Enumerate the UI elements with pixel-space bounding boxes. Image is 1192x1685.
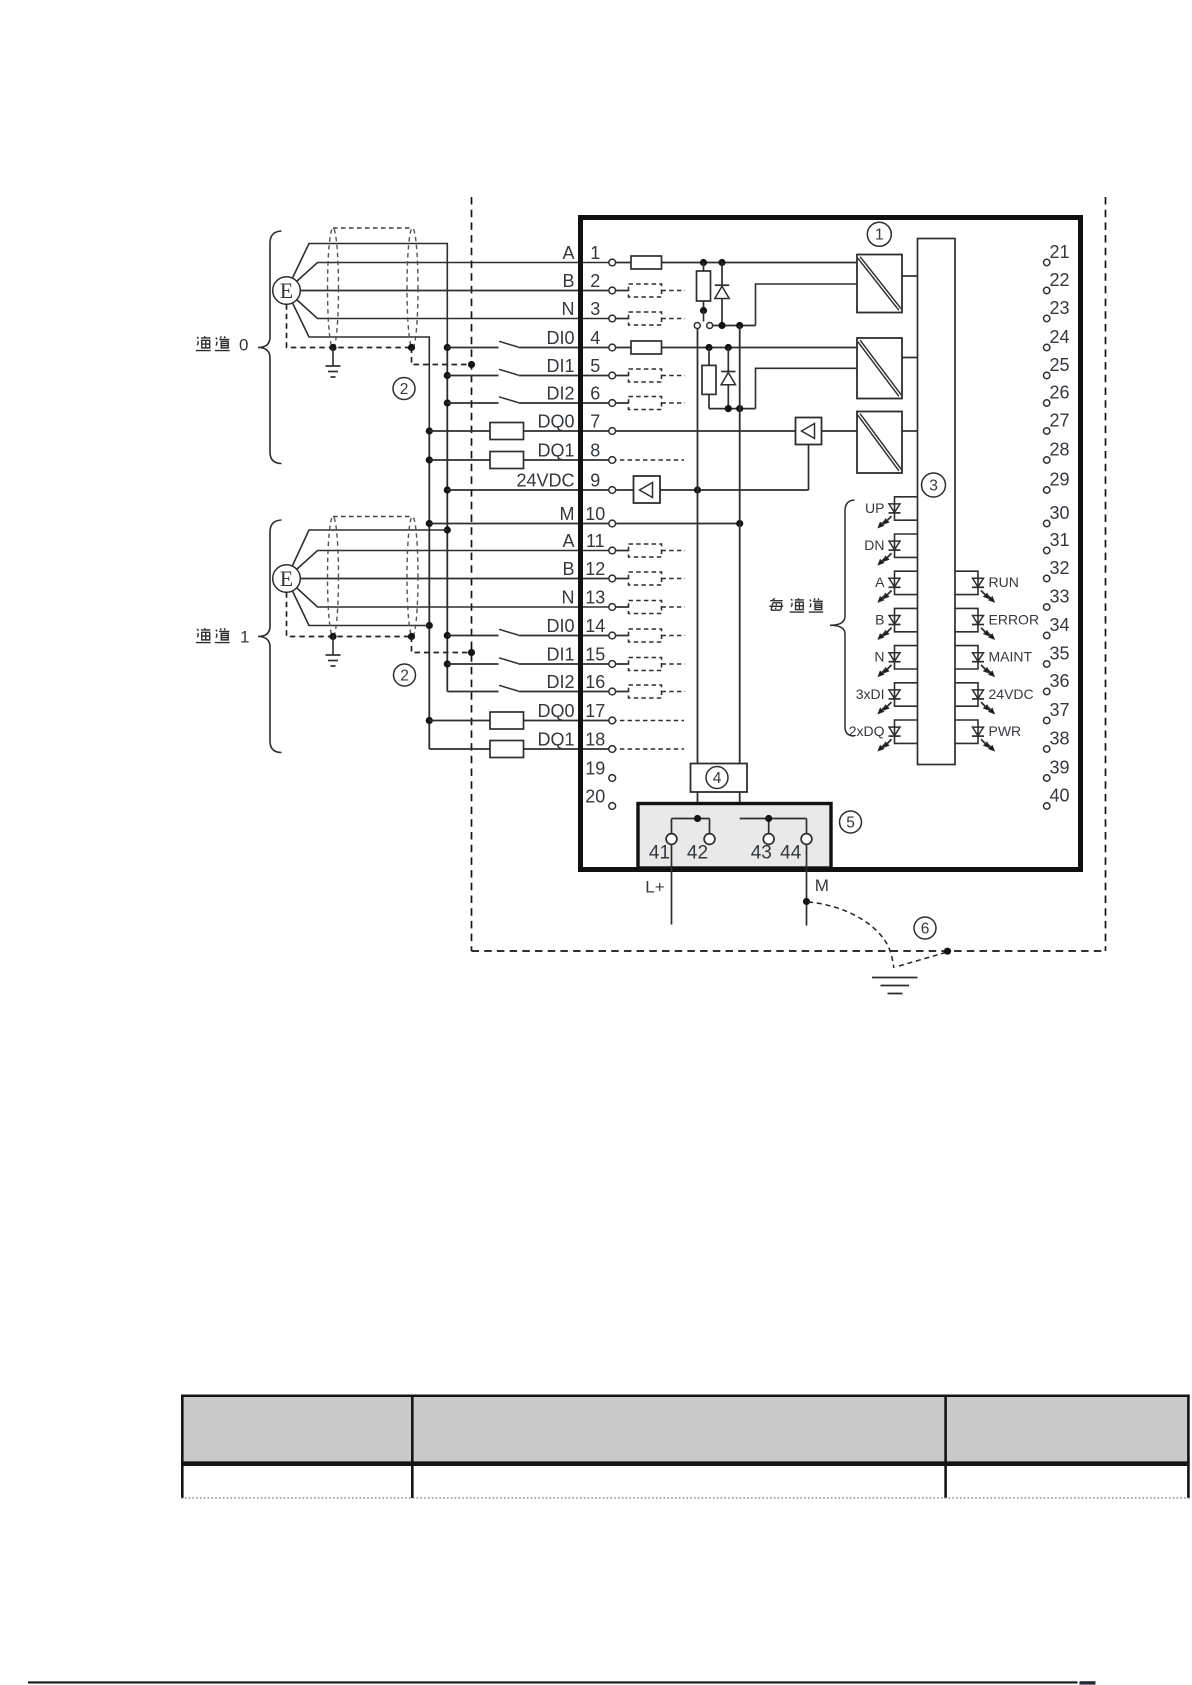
- footer rule: [28, 1681, 1078, 1683]
- table left border: [181, 1395, 184, 1499]
- wire encoder ch0 return (bottom fan) to bus A: [287, 291, 430, 432]
- L+ lead: [671, 844, 673, 924]
- svg-text:0: 0: [239, 336, 248, 355]
- wire DQ0 ch1 pin17: [429, 720, 612, 722]
- DQ0 load box ch0: [490, 423, 524, 440]
- terminal pin 22: [1044, 270, 1070, 294]
- wire encoder ch1 A to pin11: [287, 551, 613, 579]
- ground electrode symbol: [872, 978, 918, 994]
- svg-text:A: A: [562, 243, 574, 263]
- brace per-channel LEDs: [830, 500, 855, 736]
- bus1 vertical internal: [697, 329, 699, 764]
- LED N: [874, 646, 917, 677]
- svg-text:31: 31: [1049, 530, 1069, 550]
- svg-text:29: 29: [1049, 470, 1069, 490]
- dashed wire pin18 internal: [612, 748, 684, 750]
- PE drain dashed curve: [808, 902, 894, 968]
- wire encoder ch0 B to pin2: [287, 290, 613, 292]
- DQ1 load box ch1: [490, 741, 524, 758]
- svg-text:6: 6: [921, 920, 930, 937]
- shield drain ch1 dashed to cabinet wall: [412, 637, 472, 653]
- brace channel 1: [258, 520, 282, 753]
- table column divider 2: [944, 1395, 947, 1499]
- terminal pin 18: [585, 730, 615, 753]
- svg-text:36: 36: [1049, 671, 1069, 691]
- svg-text:44: 44: [780, 843, 802, 864]
- terminal pin 28: [1044, 440, 1070, 464]
- LED DN: [864, 534, 917, 565]
- svg-text:41: 41: [649, 843, 670, 864]
- svg-text:5: 5: [846, 814, 855, 831]
- junction shield drain ch1 / cabinet wall: [468, 649, 475, 656]
- terminal pin 36: [1044, 671, 1070, 695]
- terminal pin 10: [585, 504, 615, 527]
- bus A vertical (DQ/M distribution): [428, 431, 430, 749]
- svg-text:DQ1: DQ1: [537, 441, 574, 461]
- junction bus A / DQ1 ch0: [426, 456, 433, 463]
- terminal pin 3: [590, 299, 615, 322]
- svg-text:8: 8: [590, 441, 600, 461]
- terminal pin 11: [586, 531, 616, 554]
- TVS diode ch0: [715, 263, 729, 326]
- svg-text:2: 2: [400, 667, 409, 684]
- wire encoder ch1 return (bottom fan) to bus A: [287, 579, 430, 626]
- junction 24VDC / bus1: [694, 486, 701, 493]
- terminal 42 circle: [704, 834, 715, 845]
- svg-text:E: E: [280, 278, 293, 303]
- table header fill: [183, 1397, 1188, 1461]
- svg-text:DQ0: DQ0: [537, 412, 574, 432]
- svg-text:M: M: [815, 876, 829, 895]
- svg-text:PWR: PWR: [989, 723, 1022, 739]
- riser 24VDC to amp DQ0: [808, 445, 810, 491]
- junction pin1 / protection resistor ch0: [700, 259, 707, 266]
- note 3 circled (backplane): [922, 473, 946, 497]
- LED 3xDI: [856, 683, 918, 714]
- bus2 vertical internal: [739, 326, 741, 764]
- terminal pin 27: [1044, 411, 1070, 435]
- svg-text:N: N: [874, 649, 884, 665]
- svg-text:38: 38: [1049, 729, 1069, 749]
- input filter dashed box pin3: [612, 312, 685, 325]
- wire encoder ch1 B to pin12: [287, 578, 613, 580]
- cable shield ch1 left ellipse: [328, 517, 339, 637]
- module outline: [581, 218, 1081, 870]
- shield drain ch0 dashed to cabinet wall: [412, 348, 472, 365]
- DQ0 load box ch1: [490, 712, 524, 729]
- terminal pin 6: [590, 384, 615, 407]
- cabinet dashed wall right: [1105, 197, 1107, 951]
- LED 2xDQ: [849, 720, 918, 751]
- DI2 switch ch0: [447, 397, 612, 403]
- LED A: [875, 571, 917, 602]
- terminal 43 circle: [763, 834, 774, 845]
- link blade ch0: [703, 311, 705, 322]
- wire amp DQ0 to transformer T3: [822, 430, 858, 432]
- svg-text:DI1: DI1: [546, 356, 574, 376]
- encoder E ch0 circle: [273, 277, 301, 305]
- svg-text:19: 19: [585, 759, 605, 779]
- svg-text:B: B: [875, 611, 884, 627]
- terminal pin 1: [590, 243, 615, 266]
- wire DQ1 ch1 pin18: [429, 748, 612, 750]
- wire pin10 M internal to bus2: [612, 523, 740, 525]
- svg-text:34: 34: [1049, 615, 1069, 635]
- svg-text:20: 20: [585, 787, 605, 807]
- cable shield ch0 right ellipse: [407, 228, 418, 348]
- svg-text:3xDI: 3xDI: [856, 686, 885, 702]
- table outer top border: [181, 1394, 1190, 1397]
- input filter dashed box pin5: [612, 369, 685, 382]
- shield rail ch1 dashed: [287, 592, 412, 636]
- svg-text:2: 2: [400, 381, 409, 398]
- wire rail ch0 to transformer T1 lower input: [756, 284, 858, 326]
- svg-text:5: 5: [590, 356, 600, 376]
- svg-text:DI2: DI2: [546, 672, 574, 692]
- terminal pin 16: [585, 672, 615, 695]
- junction bus B / DI0 ch1: [444, 632, 451, 639]
- input filter dashed box pin12: [612, 572, 685, 585]
- LED MAINT: [955, 646, 1033, 677]
- shield rail ch1 drain junction: [408, 633, 415, 640]
- wire block4 to terminals 41/42: [672, 819, 710, 835]
- svg-text:33: 33: [1049, 587, 1069, 607]
- junction bus B / DI1 ch0: [444, 372, 451, 379]
- terminal pin 9: [590, 471, 615, 494]
- footer page number: [1080, 1681, 1096, 1684]
- M lead: [806, 844, 808, 925]
- terminal pin 12: [585, 559, 615, 582]
- TVS diode DI group: [721, 348, 735, 409]
- brace channel 0: [258, 231, 282, 464]
- terminal pin 2: [590, 271, 615, 294]
- svg-text:6: 6: [590, 384, 600, 404]
- terminal pin 15: [585, 645, 615, 668]
- svg-text:N: N: [562, 299, 575, 319]
- svg-text:N: N: [562, 588, 575, 608]
- terminal pin 13: [585, 588, 615, 611]
- terminal pin 20: [585, 787, 615, 810]
- junction pin4 / TVS diode DI: [725, 344, 732, 351]
- wire rail DI to transformer T2 lower input: [756, 368, 858, 408]
- svg-text:11: 11: [586, 531, 605, 551]
- svg-text:DN: DN: [864, 537, 884, 553]
- terminal pin 5: [590, 356, 615, 379]
- svg-text:ERROR: ERROR: [989, 611, 1040, 627]
- svg-text:24: 24: [1049, 327, 1069, 347]
- terminal pin 38: [1044, 729, 1070, 753]
- link circle ch0 right: [707, 323, 713, 329]
- svg-text:32: 32: [1049, 558, 1069, 578]
- svg-text:42: 42: [687, 843, 708, 864]
- LED UP: [865, 497, 917, 528]
- input filter dashed box pin16: [612, 685, 685, 698]
- wire M pin10 from bus A: [429, 523, 612, 525]
- terminal pin 19: [585, 759, 615, 782]
- DI0 switch ch0: [447, 341, 612, 347]
- cable shield ch1 right ellipse: [407, 517, 418, 637]
- backplane interface block: [918, 239, 956, 765]
- junction bus A / encoder ch1 return: [426, 622, 433, 629]
- rail DI group ch0: [709, 408, 756, 410]
- label per-channel (meitongdao): [769, 598, 823, 612]
- terminal pin 14: [585, 616, 615, 639]
- svg-text:DI0: DI0: [546, 328, 574, 348]
- junction shield drain ch0 / cabinet wall: [468, 361, 475, 368]
- svg-text:DQ0: DQ0: [537, 701, 574, 721]
- link circle ch0 left: [694, 323, 700, 329]
- svg-text:39: 39: [1049, 758, 1069, 778]
- labels 41 42 43 44: [649, 843, 802, 864]
- LED B: [875, 608, 917, 639]
- svg-text:7: 7: [590, 412, 600, 432]
- dashed wire pin17 internal: [612, 720, 684, 722]
- input filter dashed box pin13: [612, 601, 685, 614]
- driver amp 24VDC: [634, 476, 661, 503]
- svg-text:26: 26: [1049, 383, 1069, 403]
- note 6 circled: [914, 917, 936, 939]
- terminal pin 25: [1044, 355, 1070, 379]
- encoder E ch1 circle: [273, 565, 301, 593]
- LED ERROR: [955, 608, 1039, 639]
- svg-text:4: 4: [713, 770, 722, 787]
- terminal pin 4: [590, 328, 615, 351]
- driver amp DQ0: [796, 418, 822, 445]
- note 4 circled: [706, 767, 728, 789]
- junction bus B / DI2 ch0: [444, 399, 451, 406]
- svg-text:UP: UP: [865, 500, 884, 516]
- junction rail DI / diode: [725, 405, 732, 412]
- svg-text:27: 27: [1049, 411, 1069, 431]
- junction bus B / encoder ch1 supply: [444, 526, 451, 533]
- svg-text:1: 1: [875, 227, 884, 244]
- junction resistor ch0 bottom: [700, 307, 707, 314]
- junction bus B / 24VDC pin9: [444, 486, 451, 493]
- svg-text:24VDC: 24VDC: [989, 686, 1034, 702]
- terminal pin 39: [1044, 758, 1070, 782]
- svg-text:16: 16: [585, 672, 605, 692]
- DI1 switch ch1: [447, 658, 612, 664]
- ground symbol ch0: [326, 348, 341, 378]
- wire pin9 24VDC internal: [612, 489, 633, 491]
- svg-text:17: 17: [585, 701, 605, 721]
- wire DQ0 ch0 pin7: [429, 430, 612, 432]
- terminal pin 31: [1044, 530, 1070, 554]
- svg-text:25: 25: [1049, 355, 1069, 375]
- wire encoder ch0 N to pin3: [287, 291, 613, 319]
- wire 24VDC to DQ driver supply riser: [660, 489, 809, 491]
- isolation transformer T1: [857, 255, 918, 313]
- LED RUN: [955, 571, 1019, 602]
- protection resistor DI group (vertical): [702, 348, 716, 409]
- svg-text:B: B: [562, 271, 574, 291]
- svg-text:B: B: [562, 559, 574, 579]
- svg-text:4: 4: [590, 328, 600, 348]
- isolation transformer T3: [857, 412, 918, 474]
- svg-text:3: 3: [590, 299, 600, 319]
- cable shield ch0 top dashed line: [333, 227, 413, 229]
- input filter box pin4 (solid): [631, 341, 662, 354]
- terminal pin 23: [1044, 298, 1070, 322]
- terminal pin 34: [1044, 615, 1070, 639]
- junction M lead / PE drain: [803, 898, 810, 905]
- svg-text:DI0: DI0: [546, 616, 574, 636]
- input filter dashed box pin6: [612, 397, 685, 410]
- junction pin1 / TVS diode ch0: [718, 259, 725, 266]
- protection resistor ch0 (vertical): [697, 263, 711, 311]
- input filter box pin1 (solid): [631, 256, 662, 269]
- junction bus B / DI0 ch0: [444, 344, 451, 351]
- cable shield ch0 left ellipse: [328, 228, 339, 348]
- shield rail ch0 drain junction: [408, 344, 415, 351]
- svg-text:24VDC: 24VDC: [516, 471, 574, 491]
- svg-text:1: 1: [590, 243, 600, 263]
- svg-text:35: 35: [1049, 644, 1069, 664]
- svg-text:DI2: DI2: [546, 384, 574, 404]
- wire 24VDC pin9 from bus B: [447, 489, 612, 491]
- junction bus A / DQ0 ch0: [426, 427, 433, 434]
- junction L+ bar: [694, 815, 701, 822]
- table right border: [1187, 1395, 1190, 1499]
- svg-text:RUN: RUN: [989, 574, 1019, 590]
- junction rail ch0 / bus2: [736, 322, 743, 329]
- shield rail ch0 dashed: [287, 304, 412, 347]
- svg-text:DQ1: DQ1: [537, 730, 574, 750]
- terminal pin 24: [1044, 327, 1070, 351]
- svg-text:3: 3: [929, 477, 938, 494]
- terminal pin 35: [1044, 644, 1070, 668]
- svg-text:MAINT: MAINT: [989, 649, 1033, 665]
- rail ch0 (encoder group): [713, 325, 756, 327]
- label channel 1 (tongdao 1): [196, 628, 250, 647]
- junction bus B / DI1 ch1: [444, 660, 451, 667]
- wire block4 to terminals 43/44: [740, 819, 807, 835]
- svg-text:M: M: [560, 504, 575, 524]
- terminal pin 37: [1044, 700, 1070, 724]
- note 5 circled: [840, 811, 862, 833]
- junction M bar: [765, 815, 772, 822]
- wire DQ1 ch0 pin8: [429, 459, 612, 461]
- wire encoder ch1 supply (top fan) to bus B: [287, 530, 448, 579]
- svg-text:18: 18: [585, 730, 605, 750]
- terminal pin 33: [1044, 587, 1070, 611]
- junction rail DI / bus2: [736, 405, 743, 412]
- bus B vertical (24VDC distribution): [446, 348, 448, 692]
- table bottom dotted row boundary: [181, 1497, 1190, 1499]
- junction PE / cabinet dashed wall: [944, 948, 951, 955]
- svg-text:9: 9: [590, 471, 600, 491]
- wire pin4 DI0 internal to transformer T2: [612, 347, 857, 349]
- dashed wire pin8 DQ1 internal: [612, 459, 684, 461]
- terminal pin 40: [1044, 786, 1070, 810]
- input filter dashed box pin15: [612, 658, 685, 671]
- svg-text:21: 21: [1049, 242, 1069, 262]
- terminal pin 8: [590, 441, 615, 464]
- LED 24VDC: [955, 683, 1034, 714]
- junction pin4 / protection resistor DI: [705, 344, 712, 351]
- svg-text:43: 43: [751, 843, 772, 864]
- note 1 circled (transformers): [867, 222, 891, 246]
- junction bus A / DQ0 ch1: [426, 717, 433, 724]
- DQ1 load box ch0: [490, 452, 524, 469]
- power block 4: [691, 764, 748, 804]
- table column divider 1: [411, 1395, 414, 1499]
- isolation transformer T2: [857, 338, 918, 399]
- cable shield ch1 top dashed line: [333, 516, 413, 518]
- svg-text:E: E: [280, 566, 293, 591]
- terminal pin 17: [585, 701, 615, 724]
- svg-text:15: 15: [585, 645, 605, 665]
- svg-text:28: 28: [1049, 440, 1069, 460]
- svg-text:DI1: DI1: [546, 645, 574, 665]
- svg-text:23: 23: [1049, 298, 1069, 318]
- input filter dashed box pin11: [612, 544, 685, 557]
- cabinet dashed wall bottom: [472, 950, 1106, 952]
- DI2 switch ch1: [447, 685, 612, 691]
- svg-text:22: 22: [1049, 270, 1069, 290]
- PE drain dashed to cabinet: [899, 953, 946, 967]
- shield rail ch1 ground junction: [329, 633, 336, 640]
- note 2 circled ch0: [393, 378, 415, 400]
- DI0 switch ch1: [447, 629, 612, 635]
- note 2 circled ch1: [394, 664, 416, 686]
- svg-text:37: 37: [1049, 700, 1069, 720]
- shield rail ch0 ground junction: [329, 344, 336, 351]
- terminal pin 7: [590, 412, 615, 435]
- wire pin1 A internal to transformer T1: [612, 262, 857, 264]
- input filter dashed box pin14: [612, 629, 685, 642]
- wire encoder ch0 A to pin1: [287, 263, 613, 291]
- label channel 0 (tongdao 0): [196, 336, 249, 355]
- terminal 41 circle: [666, 834, 677, 845]
- svg-text:A: A: [875, 574, 885, 590]
- svg-text:A: A: [562, 531, 574, 551]
- terminal pin 32: [1044, 558, 1070, 582]
- input filter dashed box pin2: [612, 284, 685, 297]
- junction bus A / M pin10: [426, 520, 433, 527]
- junction rail ch0 / diode: [718, 322, 725, 329]
- svg-text:1: 1: [240, 628, 249, 647]
- svg-text:L+: L+: [645, 878, 664, 897]
- svg-text:10: 10: [585, 504, 605, 524]
- svg-text:13: 13: [585, 588, 605, 608]
- terminal pin 21: [1044, 242, 1070, 266]
- wire encoder ch1 N to pin13: [287, 579, 613, 608]
- cabinet dashed wall left: [471, 197, 473, 951]
- wire encoder ch0 supply (top fan) to bus B: [287, 244, 448, 348]
- ground symbol ch1: [326, 637, 341, 667]
- wire pin7 DQ0 internal: [612, 430, 795, 432]
- svg-text:14: 14: [585, 616, 605, 636]
- supply terminal block 5 (grey): [638, 804, 831, 869]
- svg-text:12: 12: [585, 559, 605, 579]
- junction M / bus2: [736, 520, 743, 527]
- terminal 44 circle: [801, 834, 812, 845]
- LED PWR: [955, 720, 1021, 751]
- terminal pin 26: [1044, 383, 1070, 407]
- DI1 switch ch0: [447, 369, 612, 375]
- table header bottom border: [181, 1461, 1190, 1466]
- svg-text:40: 40: [1049, 786, 1069, 806]
- svg-text:30: 30: [1049, 503, 1069, 523]
- svg-text:2: 2: [590, 271, 600, 291]
- terminal pin 30: [1044, 503, 1070, 527]
- terminal pin 29: [1044, 470, 1070, 494]
